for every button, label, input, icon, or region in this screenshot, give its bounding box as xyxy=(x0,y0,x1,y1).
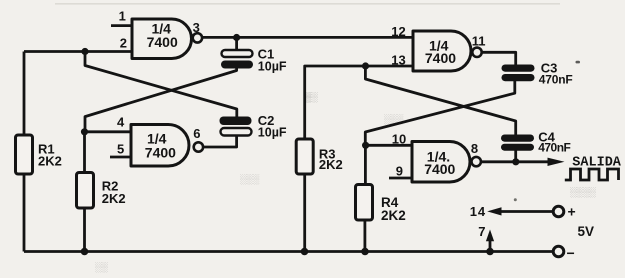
svg-text:8: 8 xyxy=(471,141,478,156)
node: ground rail / R3 xyxy=(301,248,309,256)
svg-text:7400: 7400 xyxy=(424,161,455,177)
svg-text:▒░: ▒░ xyxy=(305,92,318,103)
wire: C3 bottom diagonal to pin10 node xyxy=(365,81,515,146)
capacitor C3 xyxy=(502,60,573,86)
wire: ground rail to pin7 arrow xyxy=(489,240,492,252)
svg-text:7: 7 xyxy=(478,224,485,239)
wire: gate3 pin13 to R3 xyxy=(305,66,413,139)
svg-text:2: 2 xyxy=(120,35,127,50)
svg-text:2K2: 2K2 xyxy=(102,191,126,206)
gate U1c output bubble pin11 xyxy=(472,48,481,57)
scan streak artifact xyxy=(55,3,560,5)
terminal: − xyxy=(553,246,564,257)
arrow: pin 14 (Vcc) pointing left xyxy=(487,207,501,215)
svg-text:5: 5 xyxy=(117,141,124,156)
svg-text:░░░░: ░░░░ xyxy=(570,187,596,198)
resistor R2 xyxy=(77,173,94,209)
node: ground rail / R2 xyxy=(81,248,89,256)
node: junction gate2 pin4 / R2 xyxy=(81,128,88,135)
capacitor C1 xyxy=(221,47,287,74)
wire: +5V terminal to pin14 arrow xyxy=(499,210,553,213)
wire: C1 bottom diagonal to pin4 node xyxy=(85,68,237,132)
node: junction gate4 pin10 / R4 xyxy=(362,142,369,149)
capacitor C2 xyxy=(220,113,287,139)
svg-text:13: 13 xyxy=(391,52,405,67)
wire: pin10 node down through R4 to ground rail xyxy=(363,145,366,251)
svg-text:░░: ░░ xyxy=(95,262,108,273)
capacitor C4 xyxy=(501,130,571,155)
svg-text:░░░: ░░░ xyxy=(384,114,404,125)
faint print-through artifacts xyxy=(95,92,596,273)
gate U1a (1/4 7400 pins 1,2 -> 3) xyxy=(132,19,192,59)
gate U1d output bubble pin8 xyxy=(472,157,481,166)
wire: pin4 node down through R2 to ground rail xyxy=(83,132,86,252)
wire: left rail down to R1 xyxy=(23,52,26,136)
ink speck artifact xyxy=(576,61,581,64)
wire: pin13 node diagonal to C4 top xyxy=(365,66,515,135)
wire: gate1 pin1 stub xyxy=(111,24,132,27)
svg-text:10µF: 10µF xyxy=(258,59,287,73)
svg-text:1: 1 xyxy=(119,8,126,23)
svg-text:6: 6 xyxy=(193,126,200,141)
svg-text:10: 10 xyxy=(392,132,406,147)
wire: bottom ground rail xyxy=(24,250,553,253)
wire: C2 bottom to gate2 output pin6 xyxy=(203,135,237,147)
node: junction output3 / C1 xyxy=(233,34,240,41)
svg-text:12: 12 xyxy=(391,24,405,39)
wire: pin2 node diagonal to C2 top xyxy=(85,52,237,118)
wire: pin10 node to gate4 pin10 xyxy=(366,144,412,147)
gate U1c (1/4 7400 pins 12,13 -> 11) xyxy=(413,31,471,71)
arrow: SALIDA output xyxy=(548,158,565,166)
svg-text:3: 3 xyxy=(193,20,200,35)
svg-text:7400: 7400 xyxy=(145,144,176,160)
svg-text:2K2: 2K2 xyxy=(38,153,62,168)
svg-text:7400: 7400 xyxy=(425,50,456,66)
svg-text:5V: 5V xyxy=(578,224,595,239)
resistor R4 xyxy=(356,185,373,221)
wire: gate3 output pin11 to C3 top xyxy=(482,52,516,64)
SALIDA square wave symbol xyxy=(565,169,619,180)
wire: junction to C1 top xyxy=(235,37,238,50)
svg-text:2K2: 2K2 xyxy=(319,157,343,172)
gate U1d (1/4 7400 pins 10,9 -> 8) xyxy=(412,142,470,183)
wire: gate1 output pin3 to gate3 pin12 xyxy=(202,36,413,39)
svg-text:2K2: 2K2 xyxy=(381,208,406,223)
wire: R3 bottom to ground rail xyxy=(303,174,306,252)
node: junction output8 / C4 xyxy=(512,158,519,165)
svg-text:−: − xyxy=(567,245,575,261)
wire: R1 bottom to ground rail xyxy=(23,174,26,252)
svg-text:4: 4 xyxy=(117,115,125,130)
svg-text:11: 11 xyxy=(472,34,486,49)
svg-text:7400: 7400 xyxy=(147,34,178,50)
svg-text:470nF: 470nF xyxy=(538,141,570,155)
terminal: + 5V xyxy=(553,206,564,217)
resistor R3 xyxy=(296,139,313,174)
node: ground rail / pin7 xyxy=(486,248,494,256)
node: ground rail / R4 xyxy=(361,248,369,256)
gate U1a output bubble pin3 xyxy=(193,33,202,42)
ink speck artifact xyxy=(514,198,517,201)
wire: C4 bottom to pin8 node xyxy=(514,151,517,162)
wire: gate4 pin9 stub xyxy=(389,177,412,180)
resistor R1 xyxy=(16,135,33,174)
wire: gate1 pin2 input from left rail xyxy=(24,50,132,53)
wire: gate2 pin5 stub xyxy=(110,156,131,159)
node: junction gate3 pin13 / C4 diagonal xyxy=(362,62,369,69)
svg-text:9: 9 xyxy=(396,163,403,178)
svg-text:10µF: 10µF xyxy=(258,125,287,139)
node: junction gate1 pin2 / cross-couple xyxy=(81,48,88,55)
svg-text:14: 14 xyxy=(470,204,486,219)
arrow: pin 7 (GND) pointing up xyxy=(486,230,494,242)
wire: pin4 node to gate2 pin4 xyxy=(85,130,132,133)
wire: gate4 output pin8 to SALIDA arrow xyxy=(481,160,549,163)
gate U1b output bubble pin6 xyxy=(194,142,203,151)
svg-text:░░░: ░░░ xyxy=(240,174,260,185)
svg-text:+: + xyxy=(568,204,576,220)
gate U1b (1/4 7400 pins 4,5 -> 6) xyxy=(131,125,189,167)
svg-text:470nF: 470nF xyxy=(539,72,573,86)
